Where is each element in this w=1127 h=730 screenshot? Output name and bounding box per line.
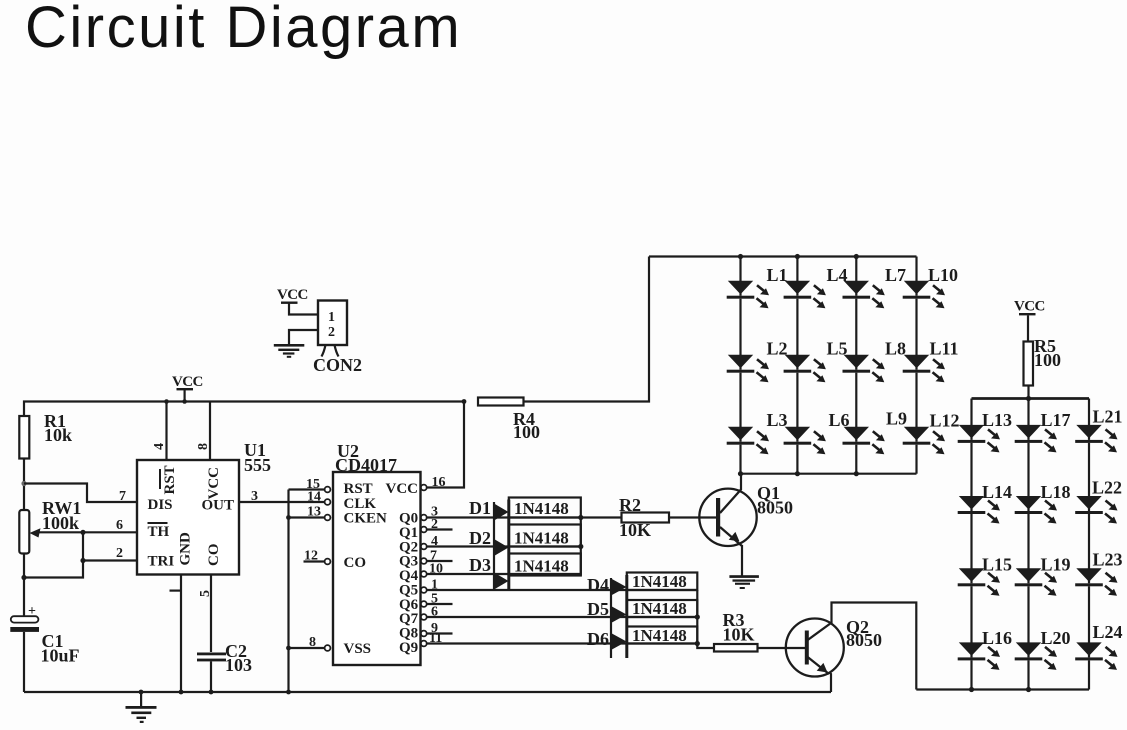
- svg-text:11: 11: [429, 631, 442, 646]
- svg-text:2: 2: [328, 325, 335, 340]
- matrix2 bottom rail: [916, 688, 1089, 690]
- svg-text:10k: 10k: [44, 425, 72, 445]
- wire RW1 wiper to U1 pin6: [36, 531, 137, 533]
- LED L13: [958, 410, 1012, 452]
- svg-text:TRI: TRI: [148, 554, 175, 570]
- svg-text:8: 8: [196, 443, 211, 450]
- value box D2 1N4148: [509, 525, 581, 547]
- wire to U1 pin2: [83, 559, 137, 561]
- wire C2 to bottom rail: [210, 661, 212, 692]
- svg-text:CO: CO: [206, 544, 222, 567]
- svg-text:1N4148: 1N4148: [632, 626, 687, 645]
- wire U1 pin3 OUT to U2 CLK: [239, 501, 325, 503]
- svg-text:DIS: DIS: [148, 497, 173, 513]
- transistor Q1 8050: [699, 483, 793, 546]
- svg-text:L15: L15: [982, 555, 1012, 575]
- wire U1 pin5 to C2: [210, 575, 212, 653]
- connector CON2: [313, 301, 362, 376]
- wire bottom GND rail: [24, 691, 831, 693]
- diode D5: [611, 606, 627, 623]
- svg-text:555: 555: [244, 455, 271, 475]
- svg-text:OUT: OUT: [202, 498, 235, 514]
- svg-text:L8: L8: [885, 339, 906, 359]
- node A dot: [21, 481, 26, 486]
- diode group D4-D6 cathode bar: [625, 575, 628, 658]
- svg-text:D5: D5: [587, 599, 609, 619]
- wire U2 CO pin12 stub: [304, 560, 325, 562]
- LED L6: [784, 410, 850, 454]
- svg-text:Circuit Diagram: Circuit Diagram: [25, 0, 462, 60]
- wire CON2 pin2 to ground: [289, 330, 318, 344]
- IC U2 CD4017: [333, 472, 421, 665]
- LED L23: [1075, 550, 1122, 596]
- wire Q0 pin3 to D1/R2: [427, 516, 622, 518]
- svg-text:8: 8: [309, 635, 316, 650]
- svg-text:D6: D6: [587, 629, 609, 649]
- wire R3 to Q2 base: [758, 647, 806, 649]
- svg-text:L11: L11: [930, 339, 959, 359]
- capacitor C1: [11, 616, 39, 622]
- svg-text:13: 13: [307, 505, 321, 520]
- svg-text:4: 4: [152, 443, 167, 450]
- svg-text:103: 103: [225, 655, 252, 675]
- node dot left rail / C1: [21, 575, 26, 580]
- wire top VCC rail: [24, 402, 464, 461]
- wire U2 VSS pin8: [289, 647, 325, 649]
- wire U2 RST pin15: [289, 488, 325, 490]
- wire C1 to bottom rail: [23, 632, 25, 692]
- svg-text:L9: L9: [886, 409, 907, 429]
- wire RW1 to C1: [23, 554, 25, 617]
- svg-text:100: 100: [1034, 350, 1061, 370]
- wire U1 pin4: [165, 402, 167, 461]
- wire U1 GND pin to bottom rail: [180, 575, 182, 693]
- LED L15: [958, 555, 1012, 596]
- node dot wiper/TRI junction: [80, 530, 85, 535]
- svg-text:1N4148: 1N4148: [632, 572, 687, 591]
- LED L24: [1075, 622, 1122, 670]
- diode D1: [494, 504, 509, 521]
- wire U1 pin8: [209, 402, 211, 461]
- value box D3 1N4148: [509, 554, 581, 576]
- svg-text:1: 1: [431, 578, 438, 593]
- svg-text:12: 12: [304, 549, 318, 564]
- diode D6: [611, 633, 627, 650]
- LED L14: [958, 482, 1012, 524]
- capacitor C2: [197, 653, 226, 662]
- svg-text:1N4148: 1N4148: [514, 529, 569, 548]
- svg-text:D2: D2: [469, 528, 491, 548]
- svg-text:TH: TH: [148, 524, 170, 540]
- svg-text:100: 100: [513, 422, 540, 442]
- LED L11: [903, 339, 959, 383]
- wire node A to U1 pin7: [24, 484, 137, 503]
- wire Q2 emitter to bottom rail: [829, 672, 831, 692]
- svg-text:10K: 10K: [723, 625, 755, 645]
- LED L1: [727, 265, 788, 308]
- svg-text:4: 4: [431, 534, 438, 549]
- diode D4: [611, 579, 627, 596]
- wire Q5 pin1 to D4: [427, 589, 698, 591]
- LED L3: [727, 410, 788, 454]
- svg-text:1: 1: [328, 310, 335, 325]
- svg-text:VSS: VSS: [344, 641, 372, 657]
- LED L8: [843, 339, 907, 383]
- svg-text:RST: RST: [344, 481, 373, 497]
- svg-text:VCC: VCC: [172, 374, 203, 390]
- U2 left pin circles: [325, 487, 331, 651]
- node dot pin2 junction: [80, 558, 85, 563]
- svg-text:8050: 8050: [757, 498, 793, 518]
- wire U2 CKEN pin13: [289, 516, 325, 518]
- LED L17: [1015, 410, 1071, 452]
- wire Q1 emitter to ground: [741, 545, 743, 576]
- wire Q1 collector to matrix1: [740, 474, 742, 490]
- wire Q3 pin7 stub: [427, 560, 453, 562]
- LED L18: [1015, 482, 1071, 524]
- svg-text:8050: 8050: [846, 630, 882, 650]
- LED L2: [727, 339, 788, 383]
- resistor R3: [714, 644, 758, 652]
- resistor R5: [1024, 342, 1034, 386]
- wire ground bus RST/CKEN/VSS: [287, 490, 289, 693]
- LED L5: [784, 339, 848, 383]
- svg-text:2: 2: [431, 517, 438, 532]
- LED L21: [1075, 407, 1122, 453]
- wire U2 VCC pin16 to rail: [427, 402, 464, 488]
- LED L22: [1075, 478, 1122, 524]
- LED L20: [1015, 628, 1071, 670]
- svg-text:L17: L17: [1041, 410, 1071, 430]
- svg-text:14: 14: [307, 490, 321, 505]
- svg-text:1N4148: 1N4148: [632, 599, 687, 618]
- svg-text:L4: L4: [827, 265, 848, 285]
- svg-text:L2: L2: [767, 339, 788, 359]
- potentiometer RW1: [19, 510, 29, 554]
- IC U1 555 timer: [137, 460, 239, 575]
- svg-text:10uF: 10uF: [41, 646, 80, 666]
- wire R5 to matrix2 rail: [1027, 386, 1029, 399]
- svg-text:Q9: Q9: [399, 640, 418, 656]
- node dots D1-D3 junction: [578, 515, 583, 520]
- svg-text:VCC: VCC: [1014, 299, 1045, 315]
- wire Q1 pin2 stub: [427, 528, 453, 530]
- diode D2: [494, 539, 509, 556]
- svg-text:L23: L23: [1093, 550, 1123, 570]
- svg-text:CON2: CON2: [313, 355, 362, 375]
- svg-text:VCC: VCC: [277, 287, 308, 303]
- ground Q1: [729, 575, 759, 589]
- svg-text:L10: L10: [928, 265, 958, 285]
- wire Q9 pin11 to D6: [427, 642, 698, 644]
- ground main: [126, 690, 157, 723]
- svg-text:L19: L19: [1041, 555, 1071, 575]
- svg-text:L7: L7: [885, 265, 906, 285]
- VCC symbol U1: [164, 374, 203, 404]
- svg-text:VCC: VCC: [386, 481, 419, 497]
- diode group D4-D6 anode line: [610, 578, 612, 658]
- diode group D1-D3 cathode bar: [507, 500, 510, 591]
- wire Q2 pin4 to D2: [427, 545, 581, 547]
- svg-text:D3: D3: [469, 555, 491, 575]
- svg-text:L3: L3: [767, 410, 788, 430]
- LED L9: [843, 409, 908, 455]
- wire Q2 collector to matrix2: [832, 603, 917, 690]
- svg-text:L20: L20: [1041, 628, 1071, 648]
- ground CON2: [274, 344, 305, 358]
- diode group D1-D3 anode line: [493, 502, 495, 590]
- VCC symbol R5: [1014, 299, 1045, 316]
- svg-text:L1: L1: [767, 265, 788, 285]
- LED L19: [1015, 555, 1071, 596]
- resistor R4: [478, 398, 524, 406]
- svg-text:L22: L22: [1092, 478, 1122, 498]
- matrix1 bottom rail: [741, 473, 917, 475]
- svg-text:100k: 100k: [42, 513, 79, 533]
- svg-text:+: +: [28, 604, 36, 619]
- svg-text:3: 3: [251, 489, 258, 504]
- LED L7: [843, 265, 907, 308]
- matrix1 top rail: [649, 255, 917, 257]
- wire Q7 pin6 to D5: [427, 616, 698, 618]
- wire Q4 pin10 to D3: [427, 573, 581, 575]
- svg-text:L21: L21: [1093, 407, 1123, 427]
- RW1 wiper arrow: [30, 528, 41, 537]
- wire Q6 pin5 stub: [427, 603, 453, 605]
- LED L10: [903, 265, 958, 308]
- wire D1-D3 junction vertical: [580, 518, 582, 576]
- svg-text:L18: L18: [1041, 482, 1071, 502]
- wire D4-D6 junction to R3: [697, 590, 714, 648]
- svg-text:CKEN: CKEN: [344, 511, 388, 527]
- LED L4: [784, 265, 848, 308]
- value box D5 1N4148: [627, 600, 698, 617]
- svg-text:7: 7: [119, 489, 126, 504]
- svg-text:6: 6: [116, 518, 123, 533]
- value box D4 1N4148: [627, 573, 698, 591]
- wire R1 to RW1: [23, 459, 25, 511]
- svg-text:L12: L12: [930, 411, 960, 431]
- transistor Q2 8050: [786, 617, 882, 677]
- diode D3: [494, 573, 509, 590]
- svg-text:L13: L13: [982, 410, 1012, 430]
- VCC symbol CON2: [277, 287, 308, 304]
- LED L16: [958, 628, 1012, 670]
- value box D1 1N4148: [509, 498, 581, 518]
- resistor R1: [19, 416, 29, 459]
- wire R4 to LED matrix1: [524, 257, 650, 402]
- LED L12: [903, 411, 960, 455]
- wire VCC to R5: [1027, 315, 1029, 341]
- wire Q8 pin9 stub: [427, 632, 453, 634]
- svg-text:GND: GND: [178, 532, 194, 566]
- node dot VCC rail / pin16 branch: [462, 399, 467, 404]
- svg-text:D4: D4: [587, 575, 609, 595]
- svg-text:CO: CO: [344, 555, 367, 571]
- svg-text:L14: L14: [982, 482, 1012, 502]
- matrix2 column wires: [972, 399, 1090, 690]
- svg-text:L16: L16: [982, 628, 1012, 648]
- svg-text:RST: RST: [162, 465, 178, 494]
- svg-text:L24: L24: [1093, 622, 1123, 642]
- svg-text:10: 10: [429, 562, 443, 577]
- wire R2 to Q1 base: [669, 516, 717, 518]
- svg-text:CD4017: CD4017: [335, 455, 397, 475]
- value box D6 1N4148: [627, 627, 698, 644]
- wire CON2 pin1 to VCC: [289, 303, 318, 315]
- svg-text:5: 5: [198, 590, 213, 597]
- svg-text:6: 6: [431, 605, 438, 620]
- svg-text:VCC: VCC: [206, 467, 222, 500]
- matrix2 top rail: [972, 397, 1090, 400]
- svg-text:D1: D1: [469, 498, 491, 518]
- U2 right pin circles: [421, 485, 427, 647]
- svg-text:10K: 10K: [619, 520, 651, 540]
- svg-text:1N4148: 1N4148: [514, 499, 569, 518]
- svg-text:1N4148: 1N4148: [514, 557, 569, 576]
- svg-text:R2: R2: [619, 495, 641, 515]
- matrix1 column wires: [741, 257, 917, 474]
- wire junction down to pin2 level and left rail: [24, 532, 83, 577]
- resistor R2: [622, 513, 670, 523]
- U1 pin1 minus mark: [170, 590, 181, 592]
- svg-text:16: 16: [432, 475, 446, 490]
- svg-text:2: 2: [116, 546, 123, 561]
